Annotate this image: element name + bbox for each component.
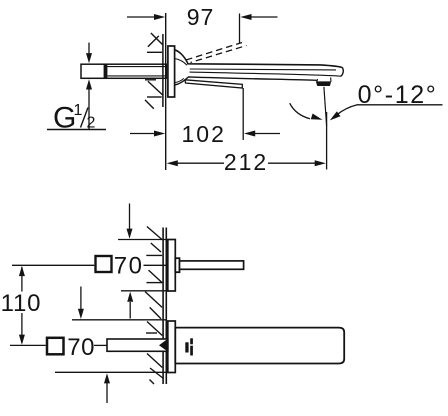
wall (top view) left line (162, 34, 164, 107)
dimension 102 (130, 131, 280, 137)
upper escutcheon (plan, 70mm square seen edge-on) (168, 240, 176, 292)
extension line right for 97 (239, 14, 241, 44)
svg-text:110: 110 (1, 290, 42, 317)
water stream line (324, 87, 327, 126)
extension line lower escutcheon centerline (10, 344, 46, 346)
dashed raised-spout line A (186, 43, 242, 61)
wall (bottom view) left line (162, 228, 164, 385)
lever dark wedge at wall (159, 339, 168, 352)
spout lower contour line (190, 72, 342, 76)
small logo mark on body (185, 338, 193, 355)
escutcheon flange (top view) (168, 46, 175, 97)
upper square symbol (96, 256, 112, 272)
mixer body (plan, rounded right end) (175, 328, 344, 364)
underline of 0-12 label (357, 104, 443, 106)
spout inner top contour line (175, 59, 337, 70)
arrow up to upper escutcheon bottom (129, 302, 131, 319)
svg-text:97: 97 (187, 4, 215, 30)
underline of G 1/2 (47, 129, 106, 131)
extension line upper escutcheon centerline (12, 264, 94, 266)
extension line bottom of lower escutcheon (55, 371, 167, 373)
wall hatching (bottom view) (145, 227, 163, 385)
svg-text:1: 1 (74, 102, 83, 119)
dimension 97 (127, 14, 278, 20)
G 1/2 upper arrow (88, 43, 90, 54)
arrow down to upper escutcheon top (129, 204, 131, 230)
svg-text:102: 102 (182, 121, 226, 147)
spout top edge (side view) (174, 50, 342, 68)
arrow down to lower escutcheon top (80, 287, 82, 311)
fraction slash of G 1/2 (81, 108, 89, 128)
extension line top of lower escutcheon (72, 319, 167, 321)
dashed raised-spout line B (191, 46, 247, 63)
dimension 212 (167, 160, 326, 166)
lever handle (side view wedge) (185, 80, 242, 88)
mousseur dark outlet band (316, 81, 331, 86)
spout pipe (plan) (180, 261, 244, 269)
wall hatching (top view) (145, 33, 163, 109)
leader from lower 70 to lever (94, 344, 107, 346)
svg-text:70: 70 (67, 334, 95, 361)
lever handle (plan) (107, 339, 168, 351)
lower square symbol (47, 338, 64, 355)
spout pipe collar (plan) (175, 258, 179, 272)
G 1/2 label (53, 102, 96, 135)
spout bottom edge (174, 77, 316, 85)
dimension 110 (19, 266, 25, 345)
spout tip nose (341, 68, 344, 77)
mousseur right edge (330, 77, 332, 81)
extension line for 102 (lever tip) (242, 88, 244, 140)
arrow up to lower escutcheon bottom (106, 383, 108, 403)
lower escutcheon (plan) (168, 321, 176, 373)
wall (top view) right line + extension line for dims 97/102/212 (165, 13, 167, 170)
pipe G1/2 supply nipple (81, 64, 166, 78)
swivel arc left arm (290, 103, 310, 119)
extension line right for 212 (326, 112, 328, 170)
swivel arc right arm / leader from 0-12 label (336, 105, 357, 115)
svg-text:212: 212 (224, 149, 268, 175)
extension line top of upper escutcheon (118, 239, 167, 241)
mousseur left edge (316, 79, 319, 82)
wall (bottom view) right line (165, 228, 167, 385)
spout trumpet bottom inner curve (175, 78, 184, 82)
extension line bottom of upper escutcheon (121, 290, 167, 292)
G 1/2 leader + lower arrow (88, 89, 90, 130)
leader from upper 70 to escutcheon (144, 264, 168, 266)
svg-text:70: 70 (114, 253, 144, 280)
